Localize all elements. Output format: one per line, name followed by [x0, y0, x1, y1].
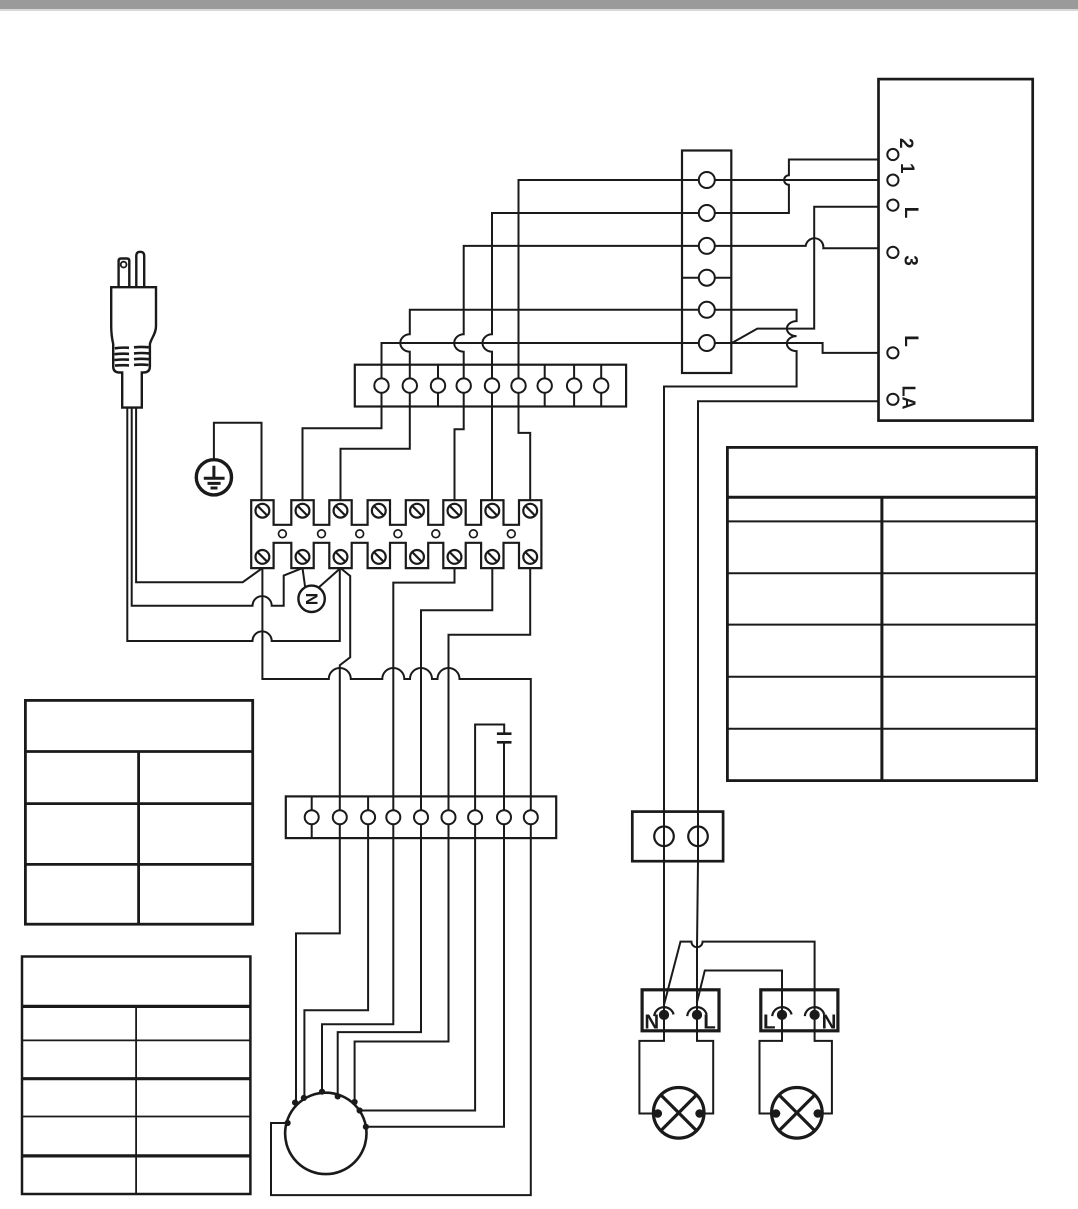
U1 terminal pin 2: [887, 149, 898, 160]
wire CN4-5 to motor winding tap 5: [338, 838, 421, 1095]
table T1 (left middle) frame: [25, 700, 252, 924]
connector strip CN2 body (6 way vertical): [682, 151, 731, 374]
TB1 mid hole d: [394, 530, 402, 538]
svg-text:N: N: [644, 1011, 659, 1034]
wire K7 bottom to lower strip CN4-5: [421, 568, 492, 796]
wire K8 bottom to lower strip CN4-6: [449, 568, 531, 796]
ground bus wire K1 bottom to lower strip CN4-9 (4 hops): [262, 568, 530, 796]
CN2 hole row4: [699, 270, 715, 286]
TB1 screw K2 top: [296, 504, 310, 518]
TB1 screw K8 top: [523, 504, 537, 518]
plug cord conductor to screw column K1 (wire): [136, 408, 262, 583]
CN4 hole 1: [305, 810, 319, 824]
X2 terminal N dot and clamp: [805, 1007, 824, 1020]
wire CN1-6 to CN2 row1: [519, 180, 683, 365]
motor M1 body: [285, 1093, 366, 1174]
CN2 hole row3: [699, 238, 715, 254]
header gray bar: [0, 0, 1078, 9]
CN3 hole 1: [654, 827, 674, 847]
capacitor C1 plates: [497, 734, 512, 743]
wire capacitor C1 to CN4-8: [503, 742, 505, 796]
TB1 screw K7 top: [485, 504, 499, 518]
neutral bus X1.N to X2.N (hop over L drop): [664, 942, 815, 1015]
plug cord conductor to screw column K3 (wire with hop): [127, 408, 339, 641]
CN2 hole row5: [699, 302, 715, 318]
lamp E2 feed wires: [760, 1015, 832, 1114]
wire CN1-4 down to K6 top (jog): [455, 407, 464, 501]
M1 stud dots: [285, 1089, 370, 1130]
TB1 screw K1 top: [256, 504, 270, 518]
wire CN4-2 to motor winding tap 2: [296, 838, 340, 1101]
CN2 hole row6: [699, 335, 715, 351]
svg-text:3: 3: [900, 255, 921, 266]
TB1 screw K4 top: [372, 504, 386, 518]
X1 terminal L dot and clamp: [687, 1007, 706, 1020]
wire U1 terminal L upper to CN2 row6 junction: [732, 207, 879, 343]
plug prong (flat blade with hole): [119, 259, 130, 288]
X2 terminal L dot and clamp: [772, 1007, 791, 1020]
U1 terminal pin 1: [887, 175, 898, 186]
live bus X1.L to X2.L: [697, 971, 782, 1015]
TB1 screw K3 bottom: [334, 550, 348, 564]
svg-text:2: 2: [895, 138, 916, 149]
CN4 hole 5: [414, 810, 428, 824]
CN1 hole 4: [457, 378, 471, 392]
connector strip CN1 body (9 way): [355, 365, 626, 407]
T2 grid lines: [22, 1006, 250, 1156]
wire CN4-4 to motor winding tap 4: [322, 838, 393, 1090]
protective earth symbol PE circle: [196, 460, 231, 495]
TB1 screw K4 bottom: [372, 550, 386, 564]
wire CN2 row1 to terminal 1 of U1: [731, 179, 878, 181]
CN4 hole 8: [497, 810, 511, 824]
terminal block TB1 comb outline (8 poles): [251, 500, 541, 568]
wire CN2 row2 to terminal 2 of U1 (hop over row1 wire): [731, 160, 878, 214]
CN1 hole 7: [538, 378, 552, 392]
CN1 hole 8: [567, 378, 581, 392]
plug cord conductor to screw column K2 (wire with hop): [132, 408, 303, 606]
TB1 mid hole b: [318, 530, 326, 538]
lampholder block X2: [761, 990, 838, 1031]
TB1 screw K5 bottom: [410, 550, 424, 564]
TB1 mid hole c: [356, 530, 364, 538]
wire CN4-8 to motor winding tap 8: [367, 838, 504, 1127]
earth symbol glyph: [204, 466, 225, 488]
T3 grid lines: [727, 497, 1036, 780]
wire K3 bottom to lower strip CN4-2: [340, 568, 350, 796]
CN3 hole 2: [688, 827, 708, 847]
wire CN1-2 to CN2 row5: [400, 310, 682, 365]
X1 terminal N dot and clamp: [654, 1007, 673, 1020]
neutral node symbol N circle: [298, 586, 324, 612]
plug prong hole: [121, 262, 127, 268]
connector CN3 body (2 way): [632, 812, 723, 862]
lamp E2 symbol: [772, 1088, 823, 1139]
TB1 screw K1 bottom: [256, 550, 270, 564]
lamp E1 symbol: [653, 1088, 704, 1139]
wire CN1-5 down to K7 top: [491, 407, 493, 501]
CN1 hole 9: [594, 378, 608, 392]
TB1 mid hole f: [470, 530, 478, 538]
CN1 hole 3: [431, 378, 445, 392]
svg-text:L: L: [900, 335, 921, 347]
lamp E1 contact dots: [654, 1109, 704, 1118]
table T3 (right) frame: [727, 447, 1036, 780]
lamp E2 contact dots: [772, 1109, 822, 1118]
wire CN3-2 down to lampholder X1 terminal L (passes hop): [697, 861, 698, 1015]
wire CN2 row3 to terminal 3 of U1 (hop): [731, 238, 878, 248]
wire CN1-4 to CN2 row3: [454, 246, 682, 365]
connector strip CN4 body (9 way lower): [286, 796, 556, 838]
TB1 screw K3 top: [334, 504, 348, 518]
CN2 hole row2: [699, 205, 715, 221]
wire K3 bottom to N node: [318, 568, 340, 588]
svg-text:N: N: [302, 593, 321, 605]
CN4 hole 7: [468, 810, 482, 824]
lampholder block X1: [642, 990, 719, 1031]
svg-text:LA: LA: [899, 386, 919, 410]
svg-text:L: L: [763, 1011, 776, 1034]
wire U1 terminal LA down to connector CN3: [698, 401, 879, 861]
CN1 hole 5: [485, 378, 499, 392]
CN4 hole 6: [442, 810, 456, 824]
TB1 mid hole e: [432, 530, 440, 538]
plug prong (round pin): [136, 252, 144, 287]
TB1 screw K6 top: [448, 504, 462, 518]
svg-text:L: L: [703, 1011, 716, 1034]
plug strain-relief ribs: [115, 347, 150, 366]
wire CN2 row5 down to connector CN3 (two hops): [664, 310, 797, 861]
table T2 (left bottom) frame: [22, 957, 250, 1195]
CN1 hole 6: [511, 378, 525, 392]
wire CN1-1 down to K2 top: [303, 407, 382, 501]
svg-text:1: 1: [896, 163, 917, 174]
CN2 hole row1: [699, 172, 715, 188]
wire CN4-7 to motor winding tap 7: [361, 838, 476, 1110]
TB1 screw K5 top: [410, 504, 424, 518]
power plug P1 body: [111, 287, 156, 407]
TB1 mid hole a: [279, 530, 287, 538]
lamp E1 feed wires: [639, 1015, 713, 1114]
svg-text:N: N: [822, 1011, 837, 1034]
TB1 mid hole g: [507, 530, 515, 538]
wire CN1-1 to CN2 row6 (with 3 hops): [382, 343, 683, 365]
U1 terminal pin LA: [887, 394, 898, 405]
wire CN4-3 to motor winding tap 3: [304, 838, 368, 1097]
U1 terminal pin 3: [887, 247, 898, 258]
control unit U1 box: [879, 79, 1033, 421]
CN4 hole 9: [524, 810, 538, 824]
wire CN1-2 down to K3 top: [341, 407, 410, 501]
CN4 hole 3: [361, 810, 375, 824]
U1 terminal pin L (lower): [887, 347, 898, 358]
TB1 screw K2 bottom: [296, 550, 310, 564]
wire CN4-7 to capacitor C1: [475, 725, 504, 797]
TB1 screw K7 bottom: [485, 550, 499, 564]
CN4 hole 4: [386, 810, 400, 824]
wire PE to screw column K1 top: [214, 423, 262, 501]
wire CN2 row6 to terminal L lower of U1: [731, 343, 878, 353]
CN1 hole 2: [403, 378, 417, 392]
U1 terminal pin L (upper): [887, 200, 898, 211]
T1 grid lines: [25, 752, 252, 925]
wire K2 bottom to N node: [303, 568, 306, 587]
wire CN4-6 to motor winding tap 6: [355, 838, 449, 1101]
TB1 screw K6 bottom: [448, 550, 462, 564]
wire CN1-6 down to K8 top (jog): [519, 407, 531, 501]
wire CN1-5 to CN2 row2: [483, 213, 683, 365]
wire K6 bottom to lower strip CN4-4: [393, 568, 454, 796]
ground wire CN4-9 around to motor frame tap 1: [271, 838, 531, 1195]
CN1 hole 1: [374, 378, 388, 392]
svg-text:L: L: [900, 207, 921, 219]
wire CN3-1 down to lampholder X1 terminal N: [663, 861, 665, 1015]
CN4 hole 2: [333, 810, 347, 824]
TB1 screw K8 bottom: [523, 550, 537, 564]
